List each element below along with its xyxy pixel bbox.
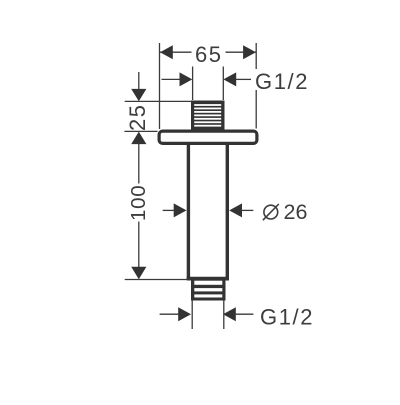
extension line thread right up	[222, 67, 224, 101]
extension line flange-top level	[124, 130, 157, 132]
diameter symbol (circle + slash)	[264, 205, 278, 219]
arrow down to thread-top line	[131, 89, 146, 101]
bottom G1/2 leader right arrow	[223, 307, 236, 321]
left dimension line upper segment	[138, 72, 140, 90]
extension line thread-top level	[125, 100, 191, 102]
svg-text:65: 65	[195, 42, 222, 67]
extension line 65 right (interrupted by G1/2 text)	[255, 43, 257, 69]
svg-text:25: 25	[125, 104, 150, 131]
svg-text:100: 100	[127, 185, 150, 221]
svg-text:26: 26	[284, 200, 308, 224]
diameter 26 right leader	[229, 203, 242, 217]
bottom thread (striped block)	[191, 281, 226, 301]
arrow down to pipe-end line	[131, 267, 146, 279]
svg-text:G1/2: G1/2	[255, 69, 309, 94]
dimension 65 right arrow	[243, 45, 256, 59]
extension line thread left up	[192, 67, 194, 101]
extension line 65 left	[159, 43, 161, 129]
pipe right wall	[226, 145, 229, 279]
dimension 65 left arrow	[160, 45, 173, 59]
arrow up to flange-top line	[131, 132, 146, 145]
extension line bottom thread left down	[191, 301, 193, 330]
left dimension line mid segment	[138, 144, 140, 184]
top G1/2 leader right arrow	[223, 72, 236, 86]
top G1/2 leader left arrow	[162, 78, 182, 80]
bottom G1/2 leader left arrow	[160, 313, 180, 315]
flange (escutcheon)	[159, 131, 257, 143]
diameter 26 left leader	[163, 209, 176, 211]
dimension 65 line	[160, 51, 192, 53]
svg-text:G1/2: G1/2	[260, 305, 314, 330]
extension line bottom thread right down	[223, 301, 225, 330]
left dimension line lower segment	[138, 222, 140, 268]
extension line pipe-end level	[125, 279, 190, 281]
pipe bottom edge	[187, 277, 229, 281]
top thread (striped block)	[191, 101, 225, 130]
pipe left wall	[187, 145, 190, 279]
